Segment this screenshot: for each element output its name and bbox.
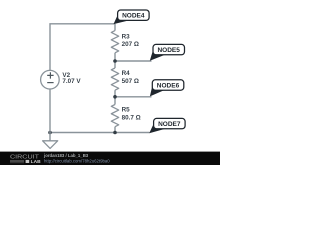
svg-text:7.07 V: 7.07 V — [62, 78, 81, 85]
wire: R3 to R4 — [114, 53, 116, 68]
voltage source V2 — [41, 70, 60, 89]
node junction dot NODE5 — [113, 59, 117, 63]
node junction dot NODE6 — [113, 95, 117, 99]
svg-text:80.7 Ω: 80.7 Ω — [122, 115, 141, 122]
node junction dot bottom of rail — [113, 131, 117, 135]
node NODE6 flag — [150, 85, 164, 97]
footer logo bars — [10, 160, 24, 162]
wire: bottom rail — [50, 132, 150, 134]
svg-text:507 Ω: 507 Ω — [122, 78, 139, 85]
footer bar — [0, 152, 220, 165]
node NODE5 flag — [150, 50, 165, 61]
svg-text:NODE7: NODE7 — [158, 121, 181, 128]
resistor R3 — [111, 31, 118, 53]
wire: rail top lead into R3 — [114, 24, 116, 31]
svg-text:R4: R4 — [122, 70, 131, 77]
resistor R4 — [111, 68, 118, 90]
wire: NODE5 stub — [115, 60, 152, 62]
node junction dot at ground — [48, 131, 52, 135]
wire: top from V2 to rail — [50, 24, 115, 71]
svg-text:http://circuitlab.com/78h2u62t: http://circuitlab.com/78h2u62t9ba0 — [44, 158, 110, 163]
svg-text:R5: R5 — [122, 107, 131, 114]
node NODE4 flag — [114, 15, 130, 24]
svg-text:R3: R3 — [122, 33, 131, 40]
ground — [49, 133, 51, 141]
node NODE7 flag — [149, 124, 165, 134]
resistor R5 — [111, 105, 118, 127]
svg-text:NODE5: NODE5 — [157, 47, 180, 54]
wire: V2 bottom lead — [49, 89, 51, 132]
wire: NODE6 stub — [115, 96, 152, 98]
svg-text:207 Ω: 207 Ω — [122, 41, 139, 48]
footer logo mark — [26, 160, 30, 163]
wire: R5 to bottom rail — [114, 127, 116, 133]
svg-text:NODE6: NODE6 — [157, 82, 180, 89]
svg-text:NODE4: NODE4 — [122, 13, 145, 20]
wire: R4 to R5 — [114, 90, 116, 104]
svg-text:LAB: LAB — [31, 159, 42, 165]
